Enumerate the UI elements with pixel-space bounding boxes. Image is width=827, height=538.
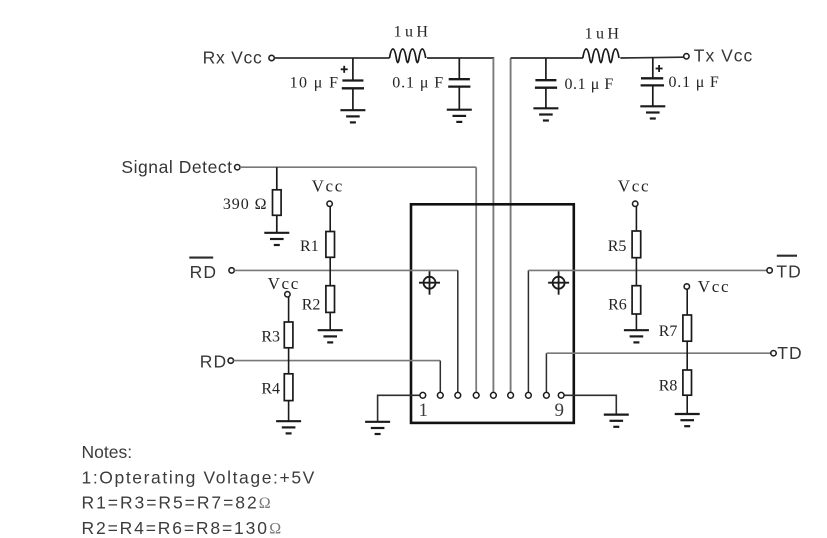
svg-text:TD: TD xyxy=(777,343,803,363)
wire vertical Signal Detect to pin4 xyxy=(475,167,477,392)
wire pin9 to ground xyxy=(561,395,616,414)
svg-text:Vcc: Vcc xyxy=(312,176,344,195)
capacitor C1 10uF lead xyxy=(352,58,354,110)
svg-text:Vcc: Vcc xyxy=(268,274,300,293)
inductor L1 1uH xyxy=(390,49,426,63)
ground at pin9 xyxy=(604,415,629,427)
svg-text:R8: R8 xyxy=(659,378,678,395)
resistor R5 body xyxy=(632,231,641,258)
capacitor C3 0.1uF lead xyxy=(545,58,547,108)
C4 plus sign xyxy=(656,65,663,72)
svg-text:R1: R1 xyxy=(300,238,319,255)
pin 7 xyxy=(526,392,532,398)
wire TD vertical from pin8 xyxy=(545,353,547,392)
mounting hole crosshair right xyxy=(548,271,569,295)
resistor R1 body xyxy=(326,232,335,258)
svg-text:Vcc: Vcc xyxy=(698,277,730,296)
svg-text:Ω: Ω xyxy=(259,495,271,512)
R3/R4 leads xyxy=(288,297,290,421)
pin 3 xyxy=(455,392,461,398)
svg-text:RD: RD xyxy=(190,262,217,282)
svg-text:1:Opterating Voltage:+5V: 1:Opterating Voltage:+5V xyxy=(82,467,316,487)
wire TD- horizontal xyxy=(528,269,766,271)
wire Tx rail left segment xyxy=(511,57,583,59)
ground below C2 xyxy=(447,110,472,122)
Vcc terminal above R1 xyxy=(327,201,332,206)
wire Signal Detect horizontal xyxy=(240,166,476,168)
TD- overline xyxy=(777,255,797,257)
svg-text:R5: R5 xyxy=(608,238,627,255)
resistor R3 body xyxy=(284,322,293,348)
wire Tx rail right segment xyxy=(620,56,683,59)
svg-text:R2=R4=R6=R8=130: R2=R4=R6=R8=130 xyxy=(82,518,269,538)
svg-text:R2: R2 xyxy=(302,297,321,314)
capacitor C1 10uF plates xyxy=(342,81,364,89)
svg-text:0.1 μ F: 0.1 μ F xyxy=(392,75,444,92)
RD- terminal xyxy=(229,268,234,273)
resistor R4 body xyxy=(284,374,293,401)
svg-text:9: 9 xyxy=(555,400,565,421)
C1 plus sign xyxy=(341,66,348,73)
pin 5 xyxy=(491,392,497,398)
R7/R8 leads xyxy=(686,289,688,413)
svg-text:1uH: 1uH xyxy=(394,24,432,41)
wire RD vertical to pin2 xyxy=(439,361,441,393)
Rx Vcc terminal xyxy=(269,55,274,60)
svg-text:R6: R6 xyxy=(608,297,627,314)
svg-text:Ω: Ω xyxy=(269,521,281,538)
RD- overline xyxy=(189,257,213,259)
ground below R2 xyxy=(318,330,343,342)
svg-text:0.1 μ F: 0.1 μ F xyxy=(565,76,614,93)
TD terminal xyxy=(771,351,776,356)
capacitor C4 plates xyxy=(641,78,664,85)
Vcc terminal above R5 xyxy=(633,201,638,206)
svg-text:R4: R4 xyxy=(261,381,280,398)
R1 leads xyxy=(329,206,331,329)
svg-text:1: 1 xyxy=(419,400,429,421)
wire Rx rail left segment xyxy=(274,57,389,59)
TD- terminal xyxy=(767,268,772,273)
ground below C3 xyxy=(533,108,558,120)
svg-text:Tx Vcc: Tx Vcc xyxy=(694,46,753,66)
svg-text:R1=R3=R5=R7=82: R1=R3=R5=R7=82 xyxy=(82,493,259,513)
capacitor C4 0.1uF polarized lead xyxy=(652,58,654,106)
wire pin1 to ground xyxy=(378,395,423,421)
pin 9 xyxy=(558,392,564,398)
RD terminal xyxy=(228,358,233,363)
svg-text:Vcc: Vcc xyxy=(618,176,650,195)
svg-text:390 Ω: 390 Ω xyxy=(223,196,268,213)
ground at pin1 xyxy=(365,422,390,434)
Tx Vcc terminal xyxy=(684,54,689,59)
svg-text:TD: TD xyxy=(776,262,802,282)
wire RD- horizontal xyxy=(234,269,457,271)
wire vertical Rx to pin5 xyxy=(492,58,494,393)
resistor 390 ohm body xyxy=(273,190,282,216)
R5/R6 leads xyxy=(635,206,637,329)
wire RD- vertical to pin3 xyxy=(457,270,459,392)
inductor L2 1uH xyxy=(583,49,619,63)
resistor R2 body xyxy=(326,286,335,313)
wire RD horizontal xyxy=(234,360,441,362)
mounting hole crosshair left xyxy=(419,271,440,295)
svg-text:10 μ F: 10 μ F xyxy=(290,75,340,92)
svg-text:R3: R3 xyxy=(261,329,280,346)
svg-text:R7: R7 xyxy=(659,323,678,340)
capacitor C2 plates xyxy=(448,79,470,86)
svg-text:Notes:: Notes: xyxy=(82,442,133,462)
ground below C1 xyxy=(340,110,365,122)
Signal Detect terminal xyxy=(235,165,240,170)
wire Rx rail right segment xyxy=(427,57,494,59)
module body U1 xyxy=(411,204,574,423)
ground below R8 xyxy=(675,414,700,426)
pin 6 xyxy=(508,392,514,398)
resistor R6 body xyxy=(632,286,641,314)
resistor R7 body xyxy=(683,315,692,341)
pin 2 xyxy=(437,392,443,398)
wire TD- vertical from pin7 xyxy=(527,270,529,392)
resistor 390 ohm leads xyxy=(276,167,278,232)
Vcc terminal above R3 xyxy=(285,292,290,297)
ground below R6 xyxy=(624,330,649,342)
capacitor C2 0.1uF lead xyxy=(458,58,460,109)
pin 8 xyxy=(544,392,550,398)
pin 1 xyxy=(420,392,426,398)
ground below C4 xyxy=(640,106,665,118)
svg-text:RD: RD xyxy=(200,351,227,371)
pin 4 xyxy=(473,392,479,398)
capacitor C3 plates xyxy=(535,80,557,88)
wire vertical Tx to pin6 xyxy=(510,58,512,393)
svg-text:1uH: 1uH xyxy=(585,26,623,43)
svg-text:0.1 μ F: 0.1 μ F xyxy=(669,74,720,91)
wire TD horizontal xyxy=(546,352,770,354)
ground below R4 xyxy=(276,421,301,433)
svg-text:Rx Vcc: Rx Vcc xyxy=(203,48,263,68)
resistor R8 body xyxy=(683,370,692,395)
ground below 390 ohm xyxy=(264,233,289,245)
Vcc terminal above R7 xyxy=(684,284,689,289)
svg-text:Signal Detect: Signal Detect xyxy=(121,157,232,177)
